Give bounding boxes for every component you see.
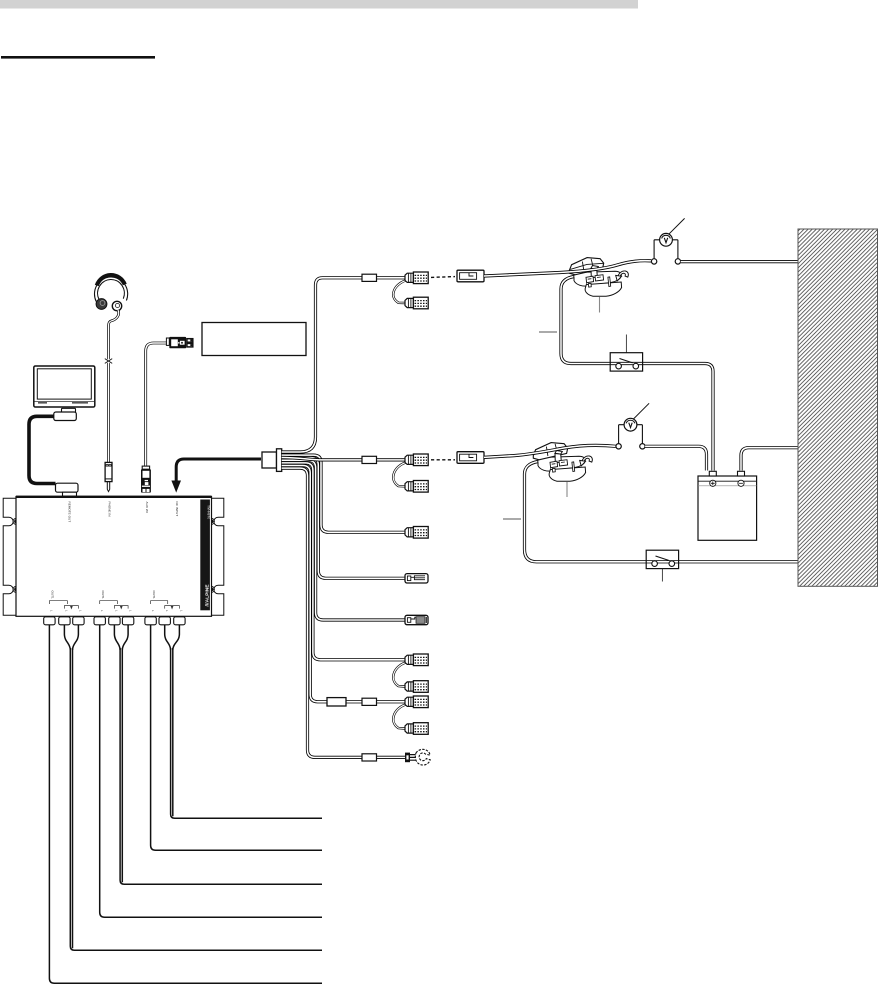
unit left bracket flange [3,498,16,615]
branch7 terminal pair [393,704,406,728]
battery minus wire to wall [741,448,799,471]
branch5 terminal [405,615,428,624]
speaker 1 [569,258,628,297]
speaker 2 down wire [525,462,799,562]
speaker 2 [533,443,592,482]
switch 1 leader [625,335,627,353]
speaker 1 leader [599,297,601,313]
svg-text:PHONE IN: PHONE IN [108,502,112,517]
branch6 terminal pair [393,662,406,686]
branch2 male connector [457,452,484,464]
wire male conn to speaker 1 / lamp 1 [484,261,651,276]
unit right bracket flange [212,498,224,615]
svg-text:REMOTE OUT: REMOTE OUT [68,502,72,523]
branch3 terminal [405,527,428,539]
switch 1 [610,353,642,371]
3.5mm plug [105,462,112,491]
wire lamp1 to wall [681,260,799,263]
branch2 dashed [431,459,455,461]
speaker 1 down wire [561,277,713,471]
wire male conn to speaker 2 / lamp 2 [484,445,616,457]
svg-text:AUX I/O: AUX I/O [145,502,149,514]
harness connector [262,449,282,472]
branch4 terminal [405,574,428,583]
svg-text:TM-H870: TM-H870 [207,505,211,519]
ferrites [362,274,377,281]
lamp 2 [616,403,649,449]
svg-text:OUT1: OUT1 [101,591,105,600]
switch 2 [646,550,678,568]
circuit1 leader left [539,331,557,333]
arrow to unit [171,459,261,493]
label box [202,323,306,356]
wire to circuit 1 [282,278,405,452]
usb plug above unit [141,466,151,493]
wire to circuit 2 [282,458,405,460]
lamp 1 [651,218,684,264]
svg-text:OUT1: OUT1 [51,591,55,600]
monitor cable plug 2 [56,483,79,496]
output single wires [49,625,322,983]
svg-text:DC INPUT: DC INPUT [175,502,179,517]
branch1 dashed [431,276,455,279]
unit screws [13,518,16,524]
unit black strip [200,500,210,611]
branch8 ring terminal [405,749,430,765]
svg-text:///ALPINE: ///ALPINE [204,584,210,607]
cable kink mark [105,358,113,364]
unit top labels [68,502,180,523]
switch 2 leader [661,569,663,582]
headphone cable [109,310,119,463]
branch1 terminal pair [393,280,406,303]
monitor cable [29,416,56,483]
usb cable [146,343,166,468]
circuit2 leader left [503,518,521,520]
title underline [1,56,155,59]
monitor plug [54,408,77,420]
unit body [16,497,212,617]
rca jack groups [44,591,185,625]
wall (hatched) [798,229,878,586]
branch1 male connector [457,270,484,282]
usb connector top [166,337,192,348]
header bar [0,0,638,9]
branch2 terminal pair [393,462,406,486]
wire lamp2 to battery + [645,446,706,470]
headphones [94,275,127,311]
output pair wires [64,625,322,950]
speaker 2 leader [566,482,568,497]
battery [698,471,757,540]
harness bundle wires [282,455,405,532]
svg-text:OUT1: OUT1 [152,591,156,600]
monitor [34,366,95,407]
